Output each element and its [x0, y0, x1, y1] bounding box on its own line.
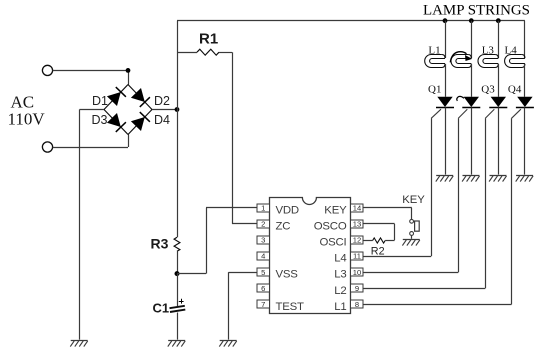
wire pin14 to KEY switch [363, 208, 412, 220]
transistor Q1 (SCR) [436, 97, 454, 108]
AC source label [8, 93, 46, 129]
label C1 [153, 301, 170, 316]
svg-text:7: 7 [261, 300, 265, 309]
svg-text:R2: R2 [371, 246, 385, 258]
svg-text:ZC: ZC [276, 220, 291, 232]
AC terminal top [42, 65, 52, 75]
wire lamp to SCR Q3 [498, 64, 500, 97]
op-amp U1 body (IC, 14-pin DIP) [270, 198, 351, 314]
IC label OSCI [319, 237, 346, 249]
wire gate 3 to IC pin [363, 288, 485, 290]
node rail junction branch 1 [443, 18, 448, 23]
node DC+ junction [175, 107, 180, 112]
svg-text:KEY: KEY [324, 204, 347, 216]
wire junction to C1 [177, 274, 179, 306]
node VDD junction [175, 271, 180, 276]
svg-text:OSCO: OSCO [314, 220, 347, 232]
IC label VSS [276, 269, 299, 281]
svg-text:L3: L3 [334, 269, 346, 281]
IC label L1 [334, 301, 346, 313]
svg-text:9: 9 [355, 284, 359, 293]
wire gate 4 to IC pin [363, 304, 511, 306]
label D2 [154, 94, 170, 108]
wire Q2 gate [458, 109, 467, 272]
wire Q4 cathode to ground [524, 107, 526, 174]
wire pin13 lead [363, 224, 394, 241]
IC label TEST [276, 301, 305, 313]
svg-text:LAMP STRINGS: LAMP STRINGS [423, 3, 530, 19]
hook mark on Q2 [457, 96, 464, 100]
IC label L4 [334, 253, 346, 265]
node rail junction branch 3 [496, 18, 501, 23]
svg-text:C1: C1 [153, 301, 170, 316]
label Q1 [428, 84, 441, 96]
resistor R2 [373, 238, 386, 243]
wire bridge right vertex to main rail [152, 109, 177, 111]
ground (branch 1) [436, 176, 453, 182]
capacitor C1 [170, 299, 186, 312]
svg-text:10: 10 [353, 268, 361, 277]
svg-text:8: 8 [355, 300, 359, 309]
diode D3 [107, 113, 126, 132]
wire branch 2 rail to lamp [471, 21, 473, 58]
svg-text:D2: D2 [154, 94, 170, 108]
svg-text:Q1: Q1 [428, 84, 441, 96]
label R1 [199, 31, 218, 48]
lamp L2 [451, 55, 471, 68]
IC label L2 [334, 285, 346, 297]
label D1 [92, 94, 108, 108]
wire Q4 gate [512, 109, 521, 304]
svg-text:Q4: Q4 [508, 84, 522, 96]
wire Q3 gate [485, 109, 494, 288]
lamp L4 [505, 55, 525, 68]
svg-text:3: 3 [261, 236, 265, 245]
label L1 [428, 45, 440, 57]
IC left pin boxes 1-7 [257, 203, 270, 309]
wire gate 2 to IC pin [363, 272, 458, 274]
resistor R3 [174, 237, 180, 251]
AC terminal bottom [42, 142, 52, 152]
svg-text:OSCI: OSCI [319, 237, 346, 249]
svg-text:L2: L2 [334, 285, 346, 297]
wire pin12 lead [363, 240, 372, 242]
label R2 [371, 246, 385, 258]
diode D4 [131, 112, 150, 131]
wire Q2 cathode to ground [471, 107, 473, 174]
IC label KEY [324, 204, 347, 216]
IC label OSCO [314, 220, 347, 232]
svg-text:KEY: KEY [402, 194, 425, 206]
wire gate 1 to IC pin [363, 256, 431, 258]
label R3 [151, 236, 169, 252]
node rail junction branch 2 [469, 18, 474, 23]
svg-text:Q3: Q3 [481, 84, 495, 96]
svg-text:TEST: TEST [276, 301, 305, 313]
wire branch 3 rail to lamp [498, 21, 500, 58]
svg-text:L1: L1 [334, 301, 346, 313]
ground (KEY) [402, 240, 419, 246]
IC right pin boxes 14-8 [351, 203, 364, 309]
label L4 [505, 45, 518, 57]
svg-text:4: 4 [261, 252, 265, 261]
pushbutton KEY [410, 219, 420, 235]
wire junction to VDD pin [177, 208, 257, 274]
wire KEY to ground [411, 235, 413, 238]
ground (AC side) [70, 341, 87, 347]
svg-text:5: 5 [261, 268, 265, 277]
ground (branch 4) [516, 176, 533, 182]
svg-text:VDD: VDD [276, 204, 299, 216]
wire AC top to bridge [53, 70, 129, 84]
arrow on lamp 2 [450, 52, 472, 63]
svg-text:L4: L4 [505, 45, 518, 57]
svg-text:R1: R1 [199, 31, 218, 48]
wire lamp to SCR Q4 [524, 64, 526, 97]
svg-text:L4: L4 [334, 253, 346, 265]
ground (branch 2) [462, 176, 479, 182]
svg-text:L1: L1 [428, 45, 440, 57]
IC label L3 [334, 269, 346, 281]
svg-text:12: 12 [353, 236, 361, 245]
wire lamp to SCR Q2 [471, 64, 473, 97]
lamp L3 [478, 55, 498, 68]
wire bridge left vertex to ground [80, 110, 105, 340]
node AC-top junction [126, 68, 131, 73]
diode D2 [131, 88, 150, 107]
label Q4 [508, 84, 522, 96]
lamp L1 [425, 55, 445, 68]
svg-text:14: 14 [353, 203, 361, 212]
ground (VSS) [219, 341, 236, 347]
svg-text:11: 11 [353, 252, 361, 261]
ground (C1) [168, 341, 185, 347]
wire VSS to ground [229, 272, 258, 339]
wire lamp to SCR Q1 [445, 64, 447, 97]
svg-text:1: 1 [261, 203, 265, 212]
wire R1 to ZC pin [219, 52, 257, 224]
wire Q1 cathode to ground [445, 107, 447, 174]
label LAMP STRINGS [423, 3, 530, 19]
wire R2 to corner [385, 240, 394, 242]
ground (branch 3) [489, 176, 506, 182]
svg-text:D3: D3 [92, 113, 108, 127]
wire branch 1 rail to lamp [445, 21, 447, 58]
wire top rail [177, 20, 525, 22]
diode D1 [107, 87, 126, 106]
svg-text:6: 6 [261, 284, 265, 293]
wire AC bottom to bridge [53, 135, 129, 148]
transistor Q3 (SCR) [489, 97, 507, 108]
resistor R1 [197, 49, 219, 55]
svg-text:110V: 110V [8, 110, 46, 129]
svg-text:VSS: VSS [276, 269, 299, 281]
transistor Q4 (SCR) [516, 97, 534, 108]
bridge diamond wires [104, 85, 152, 135]
svg-text:D4: D4 [154, 113, 170, 127]
wire main DC+ vertical [177, 21, 179, 238]
label KEY [402, 194, 425, 206]
label L3 [482, 45, 495, 57]
label Q3 [481, 84, 495, 96]
svg-text:L3: L3 [482, 45, 495, 57]
wire R1 left lead [177, 52, 197, 54]
wire branch 4 rail to lamp [524, 21, 526, 58]
svg-text:2: 2 [261, 220, 265, 229]
label D3 [92, 113, 108, 127]
wire Q1 gate [431, 109, 441, 256]
svg-text:R3: R3 [151, 236, 169, 252]
IC label ZC [276, 220, 291, 232]
wire C1 to ground [177, 313, 179, 340]
wire Q3 cathode to ground [498, 107, 500, 174]
transistor Q2 (SCR) [462, 97, 480, 108]
IC label VDD [276, 204, 299, 216]
label D4 [154, 113, 170, 127]
svg-text:13: 13 [353, 220, 361, 229]
svg-text:D1: D1 [92, 94, 108, 108]
wire R3 to junction [177, 251, 179, 273]
